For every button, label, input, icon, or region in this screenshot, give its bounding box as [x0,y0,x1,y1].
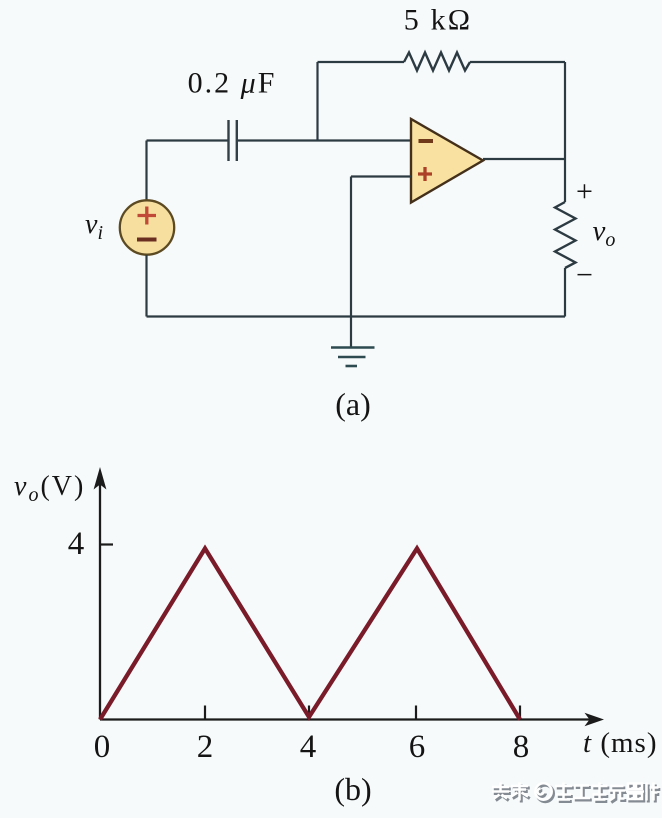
wire: input node from source to op-amp inverting input [147,139,412,141]
svg-text:(a): (a) [335,386,371,422]
wire: non-inverting input vertical down to ground [350,177,352,348]
ground symbol [331,348,375,367]
voltage source VI circle [120,200,174,254]
wire: output node down to load resistor [564,159,566,202]
op-amp U1 non-inverting input marker [418,167,432,181]
svg-text:2: 2 [197,729,214,765]
capacitor C1 plates [229,120,237,161]
graph: y axis line [99,474,101,720]
graph: y axis arrowhead [94,467,107,490]
graph: x tick at 4 [308,706,310,720]
voltage source VI minus marker [137,238,157,242]
graph: x tick at 8 [519,706,521,720]
svg-text:0.2 μF: 0.2 μF [188,67,277,100]
graph: x tick at 6 [415,706,417,720]
wire: bottom rail [147,315,566,317]
wire: op-amp output to output node [483,158,565,160]
resistor RL load zigzag [555,202,576,268]
voltage source VI plus marker [138,207,157,225]
svg-text:4: 4 [68,526,85,562]
graph: triangular output waveform trace [100,549,520,720]
svg-text:6: 6 [409,729,426,765]
svg-text:0: 0 [94,729,111,765]
svg-text:8: 8 [513,729,530,765]
op-amp U1 triangle body [411,119,483,203]
wire: non-inverting input horizontal [351,175,411,177]
wire: source bottom lead [145,255,147,317]
wire: top feedback horizontal left segment [318,61,405,63]
svg-text:(b): (b) [334,771,371,807]
graph: x axis line [100,718,590,720]
graph: x tick at 2 [204,706,206,720]
wire: top feedback horizontal right segment [470,61,565,63]
wire: load resistor bottom to bottom rail [564,268,566,317]
svg-text:−: − [576,259,593,292]
op-amp U1 inverting input marker [419,139,434,143]
svg-text:t (ms): t (ms) [583,727,657,759]
wire: source top lead [145,141,147,201]
wire: feedback branch vertical riser at node A [316,62,318,141]
wire: feedback right vertical down to output node [564,62,566,159]
svg-text:+: + [576,175,593,208]
resistor R1 5k feedback zigzag [404,53,470,71]
svg-text:vo(V): vo(V) [14,471,85,506]
svg-text:5 kΩ: 5 kΩ [404,4,473,37]
watermark: toutiao logo and author text (embossed) [492,783,660,803]
graph: y tick at 4 [100,543,113,545]
svg-text:4: 4 [300,729,317,765]
graph: x axis arrowhead [585,713,605,726]
